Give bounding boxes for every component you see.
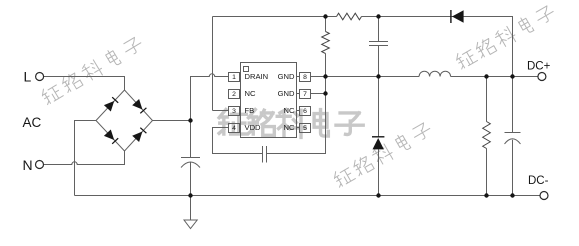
svg-text:2: 2 — [232, 91, 236, 98]
svg-text:GND: GND — [278, 89, 295, 98]
svg-text:AC: AC — [23, 115, 42, 130]
svg-text:DC-: DC- — [528, 175, 549, 187]
svg-text:8: 8 — [303, 74, 307, 81]
svg-text:6: 6 — [303, 108, 307, 115]
svg-text:GND: GND — [278, 72, 295, 81]
svg-text:DC+: DC+ — [527, 61, 551, 73]
svg-text:7: 7 — [303, 91, 307, 98]
svg-text:VDD: VDD — [245, 123, 262, 132]
svg-text:DRAIN: DRAIN — [245, 72, 269, 81]
svg-text:NC: NC — [245, 89, 256, 98]
svg-text:NC: NC — [284, 123, 295, 132]
svg-text:FB: FB — [245, 106, 255, 115]
svg-text:5: 5 — [303, 125, 307, 132]
svg-text:L: L — [24, 69, 32, 85]
svg-text:3: 3 — [232, 108, 236, 115]
svg-text:NC: NC — [284, 106, 295, 115]
svg-text:4: 4 — [232, 125, 236, 132]
svg-text:1: 1 — [232, 74, 236, 81]
svg-text:N: N — [23, 157, 33, 173]
